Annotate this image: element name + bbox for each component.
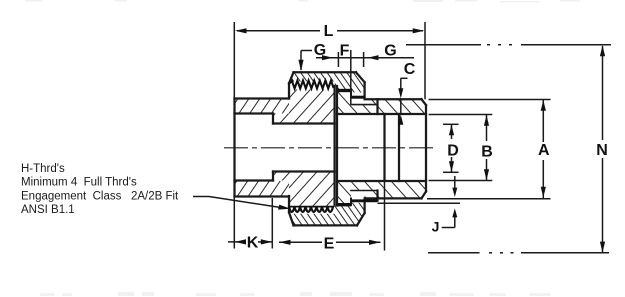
svg-text:N: N [596, 142, 608, 159]
svg-text:Engagement Class 2A/2B Fit: Engagement Class 2A/2B Fit [21, 191, 179, 203]
svg-text:L: L [324, 23, 334, 40]
svg-text:J: J [432, 219, 440, 235]
svg-text:ANSI B1.1: ANSI B1.1 [21, 204, 75, 216]
svg-text:A: A [538, 142, 550, 159]
svg-text:B: B [481, 143, 493, 160]
svg-text:Minimum 4 Full Thrd's: Minimum 4 Full Thrd's [21, 177, 137, 189]
svg-text:F: F [340, 43, 350, 60]
svg-text:G: G [384, 43, 396, 60]
svg-text:D: D [447, 142, 459, 159]
svg-text:C: C [404, 61, 416, 78]
svg-text:K: K [247, 235, 259, 252]
svg-text:G: G [314, 42, 326, 59]
svg-text:H-Thrd's: H-Thrd's [21, 163, 65, 175]
svg-text:E: E [324, 236, 335, 253]
